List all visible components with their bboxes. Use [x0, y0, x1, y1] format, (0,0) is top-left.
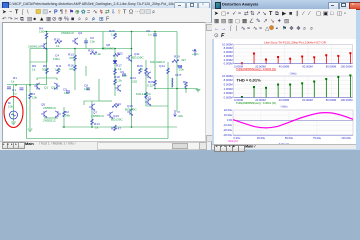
output line [155, 88, 198, 90]
svg-text:Vout (V): Vout (V) [228, 139, 238, 143]
svg-text:1.8k: 1.8k [55, 68, 61, 72]
resistor R4 [45, 33, 48, 39]
svg-text:▾: ▾ [227, 11, 229, 16]
svg-text:MJL3281C: MJL3281C [150, 60, 166, 64]
svg-text:50.00u: 50.00u [285, 135, 294, 139]
svg-text:R10: R10 [54, 38, 60, 42]
svg-text:220: 220 [132, 80, 137, 84]
wire lower driver row [146, 105, 168, 107]
svg-text:10k: 10k [8, 105, 13, 109]
wire diff emitters [37, 78, 57, 80]
svg-text:Q3: Q3 [51, 86, 55, 90]
svg-text:80.000M: 80.000M [326, 98, 337, 102]
ground load [196, 90, 201, 92]
svg-text:1k: 1k [32, 68, 36, 72]
chart 2 grid [234, 76, 353, 98]
chart 3 zero line [233, 119, 353, 121]
capacitor C8 [153, 34, 157, 36]
svg-text:40.000M: 40.000M [279, 64, 290, 68]
frame right vertical [167, 62, 169, 139]
svg-text:6.000M: 6.000M [224, 50, 234, 54]
chart 2 x axis [234, 96, 353, 98]
resistor R17 [114, 69, 117, 75]
resistor R29 [145, 92, 148, 98]
schematic canvas [0, 22, 205, 142]
capacitor C2 [7, 87, 11, 89]
inductor L3 [172, 78, 173, 87]
capacitor C11 [178, 66, 182, 68]
svg-text:8.000M: 8.000M [224, 46, 234, 50]
svg-text:OUT: OUT [175, 73, 182, 77]
ground input [11, 122, 16, 124]
chart 3 x labels [234, 135, 352, 139]
input wire [7, 84, 47, 86]
chart 3 x axis [233, 134, 353, 136]
svg-text:⇄: ⇄ [244, 10, 249, 17]
junction dots [15, 31, 187, 128]
left tab bar [0, 141, 211, 149]
right title bar [212, 0, 360, 10]
transistor Q2 [72, 38, 78, 45]
resistor R2 tail [63, 111, 66, 117]
right tab bar [212, 144, 356, 149]
svg-text:1u: 1u [148, 33, 152, 37]
svg-text:47k: 47k [69, 56, 74, 60]
wire diff bases row [36, 85, 38, 90]
chart 2 stem markers [241, 74, 351, 98]
chart 3 grid [233, 110, 353, 135]
svg-text:✦: ✦ [277, 17, 282, 24]
svg-text:100.000M: 100.000M [341, 64, 354, 68]
+V supply symbol [194, 50, 197, 57]
svg-text:↷: ↷ [8, 15, 13, 22]
chart 3 magenta sine [233, 112, 353, 127]
svg-text:MJL1302C: MJL1302C [136, 92, 152, 96]
svg-text:10n: 10n [84, 87, 89, 91]
schematic SVG placed here [0, 22, 205, 141]
right toolbars [212, 9, 356, 18]
resistor R22 [113, 54, 120, 57]
wire input column [46, 32, 48, 86]
sheet frame bottom [27, 138, 169, 140]
svg-text:10n: 10n [90, 40, 95, 44]
svg-text:⌡: ⌡ [235, 24, 238, 31]
chart 1 x labels [234, 64, 353, 68]
svg-text:90k: 90k [42, 68, 47, 72]
svg-text:▾: ▾ [49, 9, 51, 14]
svg-text:60.000M: 60.000M [302, 98, 313, 102]
svg-text:0.000M: 0.000M [224, 95, 234, 99]
left title text [9, 2, 187, 6]
transistor Q11 [126, 55, 132, 62]
svg-text:10.000M: 10.000M [222, 42, 233, 46]
svg-text:2.000M: 2.000M [224, 57, 234, 61]
svg-text:↶: ↶ [2, 15, 7, 22]
svg-text:f (Hz): f (Hz) [290, 71, 297, 75]
svg-text:8: 8 [185, 84, 187, 88]
svg-text:2.000M: 2.000M [224, 91, 234, 95]
ground left column [28, 129, 33, 131]
svg-text:25.00u: 25.00u [257, 135, 266, 139]
svg-text:36k: 36k [65, 114, 70, 118]
svg-text:Q12: Q12 [145, 96, 151, 100]
resistor R23 [90, 52, 97, 55]
svg-text:✎: ✎ [256, 17, 261, 24]
chart 1 stem markers [241, 52, 351, 64]
wire tail column [63, 107, 65, 127]
svg-text:-10.00u: -10.00u [223, 123, 233, 127]
resistor R28 [114, 33, 117, 39]
wire left column to frame [26, 85, 28, 139]
svg-text:80.000M: 80.000M [326, 64, 337, 68]
svg-text:8.000M: 8.000M [224, 78, 234, 82]
chart 1 y labels [222, 42, 233, 65]
wire load column [185, 89, 187, 94]
chart 1 x axis [234, 62, 353, 64]
chart 1 red stems [242, 53, 350, 63]
svg-text:Q14: Q14 [159, 64, 165, 68]
svg-text:10.000M: 10.000M [222, 73, 233, 77]
svg-text:1k: 1k [56, 44, 60, 48]
transistor Q6 [55, 111, 61, 118]
resistor R30 [167, 68, 170, 74]
wire mirror row [44, 117, 58, 119]
svg-text:∠: ∠ [249, 17, 254, 24]
svg-text:10u: 10u [64, 91, 69, 95]
svg-text:60.000M: 60.000M [302, 64, 313, 68]
svg-text:1k: 1k [95, 126, 99, 130]
wire vas row [98, 79, 100, 101]
resistor R27 [145, 68, 148, 74]
svg-text:2.2k: 2.2k [95, 52, 101, 56]
svg-text:BD140C: BD140C [125, 108, 137, 112]
red ellipse annotation [4, 97, 23, 128]
resistor R44 [112, 105, 119, 108]
svg-text:10k: 10k [32, 96, 37, 100]
svg-text:BD139C: BD139C [111, 118, 123, 122]
svg-text:1k: 1k [118, 67, 122, 71]
wire driver column 2 [145, 60, 147, 89]
resistor R19 [172, 60, 179, 63]
wire q12 column [145, 89, 147, 106]
transistor Q4 [41, 43, 47, 50]
wire right rail down [176, 32, 178, 113]
bottom rail [62, 126, 177, 128]
wire bias column [85, 66, 87, 76]
capacitor C9 [122, 74, 126, 76]
resistor R10 [55, 41, 62, 44]
charts SVG [212, 39, 356, 145]
svg-text:BD139C: BD139C [132, 56, 144, 60]
capacitor C8b [86, 88, 90, 90]
transistor Q5 [41, 111, 47, 118]
svg-text:+40v: +40v [192, 52, 199, 56]
svg-text:100.00u: 100.00u [341, 135, 351, 139]
diode D1 [113, 61, 117, 64]
wire mid column R13/R16 [74, 49, 76, 91]
svg-text:vR: vR [139, 68, 144, 72]
wire C6 link [85, 38, 87, 49]
chart 1 grid [234, 44, 353, 63]
resistor RL load [185, 82, 188, 88]
svg-text:40.000M: 40.000M [279, 98, 290, 102]
transistor Q15 [127, 109, 133, 116]
svg-text:100.000M: 100.000M [341, 98, 354, 102]
svg-text:-40v: -40v [177, 114, 183, 118]
chart 2 x labels [234, 98, 353, 102]
capacitor C5 [66, 91, 70, 93]
resistor R11 [57, 68, 60, 74]
svg-text:150: 150 [39, 30, 44, 34]
right window buttons [328, 2, 339, 10]
wire top link [102, 32, 104, 49]
svg-text:2N5551C: 2N5551C [91, 114, 105, 118]
svg-text:10.00u: 10.00u [224, 112, 233, 116]
resistor R13 [74, 55, 77, 61]
wire Q7 column [91, 101, 93, 127]
svg-text:R22: R22 [117, 52, 123, 56]
svg-text:4.000M: 4.000M [224, 86, 234, 90]
wire vas link [30, 61, 47, 63]
svg-text:THD(AMPRMS(out)) : 0.0061 (%): THD(AMPRMS(out)) : 0.0061 (%) [236, 100, 276, 104]
svg-text:2N5401C: 2N5401C [61, 31, 75, 35]
wire source column [13, 85, 15, 122]
svg-text:R44: R44 [115, 102, 121, 106]
svg-text:10n: 10n [179, 68, 184, 72]
transistor Q14 [145, 72, 151, 79]
wire vas link row [99, 100, 112, 102]
svg-text:1.2k: 1.2k [116, 79, 122, 83]
capacitor C6 [84, 41, 88, 43]
transistor Q7 [89, 104, 95, 111]
resistor R25 [154, 80, 157, 86]
svg-text:1k: 1k [11, 80, 15, 84]
second rail [30, 48, 132, 50]
wire driver column [131, 32, 133, 128]
resistor R26 [139, 68, 142, 74]
left window icon [2, 2, 9, 9]
wire left column [29, 49, 31, 129]
-V supply symbol [174, 110, 177, 117]
resistor R9 [46, 68, 49, 74]
svg-text:BD140C: BD140C [102, 47, 114, 51]
svg-text:2N5551C: 2N5551C [43, 106, 57, 110]
svg-text:100u: 100u [53, 57, 60, 61]
svg-text:0.22: 0.22 [147, 84, 153, 88]
wire fb [46, 49, 48, 63]
right client left frame [212, 39, 214, 145]
resistor R32 [114, 125, 117, 131]
top supply rail [44, 31, 177, 33]
wire column R17/R18 [114, 49, 116, 97]
source VG1 circle [10, 111, 18, 119]
svg-text:2N5551C: 2N5551C [43, 119, 57, 123]
chart 3 y labels [223, 107, 233, 136]
svg-text:THD = 0,01%: THD = 0,01% [237, 77, 262, 82]
resistor R14 [91, 119, 94, 125]
svg-text:20.00u: 20.00u [224, 107, 233, 111]
svg-text:1u: 1u [13, 92, 17, 96]
wire output stage column [171, 78, 173, 89]
chart 3 plot box (sine, magenta) [233, 110, 353, 135]
chart 2 y labels [222, 73, 233, 99]
right title text [222, 2, 258, 7]
svg-text:0.00u: 0.00u [234, 135, 241, 139]
svg-text:2N5401G: 2N5401G [28, 45, 42, 49]
resistor R16 [74, 65, 77, 71]
svg-text:4k7: 4k7 [181, 58, 186, 62]
left horizontal scrollbar [97, 142, 207, 150]
svg-text:⌠: ⌠ [229, 24, 232, 31]
resistor R18 [114, 79, 117, 85]
transistor Q9 [115, 85, 121, 92]
svg-text:75.00u: 75.00u [313, 135, 322, 139]
svg-text:Like-Sony TA-F120_20hp-Pol_10k: Like-Sony TA-F120_20hp-Pol_10kHz-HC? OR [264, 40, 327, 44]
left toolbar row 2 [0, 15, 211, 23]
wire output column [154, 32, 156, 89]
svg-text:47k: 47k [69, 67, 74, 71]
vertical scrollbar [205, 23, 212, 141]
svg-text:R32 47: R32 47 [111, 127, 121, 131]
transistor Q3 [54, 83, 60, 90]
svg-text:0.00: 0.00 [227, 118, 233, 122]
svg-text:1.00: 1.00 [111, 33, 117, 37]
svg-text:0.000M: 0.000M [224, 61, 234, 65]
svg-text:10n: 10n [122, 74, 127, 78]
svg-text:6.000M: 6.000M [224, 82, 234, 86]
svg-text:4.000M: 4.000M [224, 53, 234, 57]
chart 2 green stems [242, 76, 350, 98]
chart 1 plot box [234, 44, 353, 63]
svg-text:R23: R23 [88, 49, 94, 53]
svg-text:Q4: Q4 [78, 31, 82, 35]
left window buttons [174, 2, 186, 10]
svg-text:-20.00u: -20.00u [223, 128, 233, 132]
transistor Q13 [107, 112, 113, 119]
svg-text:THD(AMPRMS(out)) : 0.0092 (%): THD(AMPRMS(out)) : 0.0092 (%) [236, 67, 276, 71]
svg-text:f (Hz): f (Hz) [281, 104, 288, 108]
svg-text:Q1: Q1 [44, 86, 48, 90]
capacitor C1 [20, 88, 24, 90]
svg-text:∥: ∥ [296, 10, 299, 17]
svg-text:⚑: ⚑ [282, 24, 287, 31]
right frame edges [356, 0, 360, 150]
right window icon [215, 2, 222, 9]
transistor Q1 [34, 83, 40, 90]
svg-text:-30.00u: -30.00u [223, 133, 233, 137]
left toolbar row 1 [0, 8, 211, 16]
chart 2 plot box (green harmonics) [234, 76, 353, 98]
left title bar [0, 0, 211, 9]
wire Q7 collector loop [84, 101, 99, 105]
transistor Q12 [145, 99, 151, 106]
resistor R3 [29, 93, 32, 99]
svg-text:R19: R19 [174, 55, 180, 59]
